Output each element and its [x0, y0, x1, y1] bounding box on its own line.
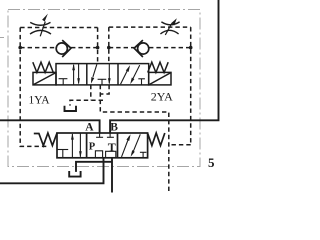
svg-text:A: A [85, 122, 94, 134]
svg-text:P: P [89, 142, 96, 153]
svg-text:5: 5 [208, 155, 215, 170]
svg-text:2YA: 2YA [151, 90, 173, 104]
svg-text:T: T [108, 140, 116, 154]
svg-text:B: B [110, 121, 118, 133]
svg-text:1YA: 1YA [29, 95, 51, 107]
